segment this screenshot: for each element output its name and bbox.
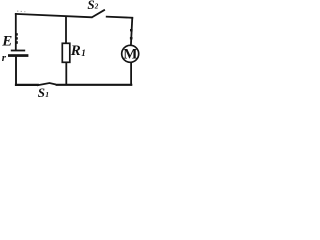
- switch S2 blade: [92, 10, 105, 18]
- wire: left vertical lower (battery bottom plate down to bottom wire): [15, 57, 17, 86]
- battery E,r: top plate: [11, 50, 25, 52]
- switch S1 blade: [37, 83, 56, 85]
- svg-text:S: S: [38, 85, 45, 100]
- svg-text:S: S: [87, 0, 94, 12]
- wire: resistor R1 bottom lead: [65, 62, 67, 85]
- wire: top right horizontal (switch S2 fixed contact to right corner): [106, 17, 133, 18]
- specks above top-left corner: [17, 11, 18, 12]
- wire: bottom left horizontal: [15, 84, 39, 86]
- svg-text:r: r: [2, 52, 7, 64]
- svg-text:1: 1: [81, 48, 86, 58]
- wire: left vertical upper (top corner down to battery top plate): [15, 13, 17, 50]
- battery E,r: bottom plate: [8, 54, 28, 57]
- wire: bottom right horizontal: [56, 84, 133, 86]
- background: [0, 0, 141, 100]
- svg-text:2: 2: [94, 3, 99, 11]
- svg-text:R: R: [70, 43, 81, 59]
- svg-text:M: M: [123, 46, 137, 62]
- svg-text:E: E: [1, 33, 12, 49]
- wire: resistor R1 top lead: [65, 16, 67, 44]
- wire: motor bottom lead down to bottom wire: [130, 62, 132, 85]
- wire: right vertical (top corner down to motor): [131, 17, 132, 45]
- wire: top left horizontal (battery top to switch S2 pivot): [15, 14, 92, 17]
- motor U: circle: [122, 45, 139, 62]
- resistor R1 box: [62, 43, 70, 62]
- svg-text:1: 1: [45, 90, 49, 99]
